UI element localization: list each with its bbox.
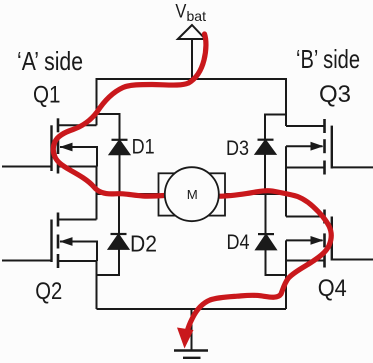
svg-text:D3: D3 bbox=[226, 136, 249, 160]
svg-text:D1: D1 bbox=[132, 135, 155, 159]
svg-text:Q2: Q2 bbox=[35, 278, 62, 305]
svg-text:D2: D2 bbox=[130, 231, 157, 257]
svg-text:Q3: Q3 bbox=[319, 81, 351, 108]
svg-text:M: M bbox=[187, 187, 198, 202]
svg-text:D4: D4 bbox=[227, 230, 250, 254]
svg-text:V: V bbox=[175, 1, 186, 23]
svg-text:bat: bat bbox=[187, 8, 207, 24]
svg-text:‘A’ side: ‘A’ side bbox=[17, 46, 83, 76]
svg-text:‘B’ side: ‘B’ side bbox=[296, 44, 360, 74]
svg-text:Q1: Q1 bbox=[33, 81, 61, 108]
svg-text:Q4: Q4 bbox=[318, 275, 347, 302]
